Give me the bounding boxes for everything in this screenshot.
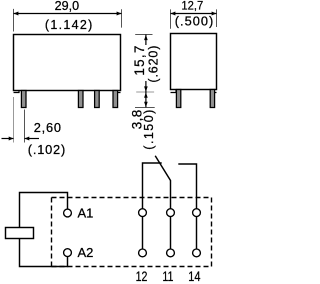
svg-text:29,0: 29,0 [55, 0, 80, 13]
svg-text:12: 12 [136, 269, 148, 284]
svg-text:(.150): (.150) [142, 110, 156, 150]
svg-text:2,60: 2,60 [34, 120, 61, 135]
svg-text:(1.142): (1.142) [45, 18, 93, 32]
svg-text:A2: A2 [78, 245, 94, 260]
svg-text:(.102): (.102) [28, 142, 66, 157]
svg-text:11: 11 [162, 269, 173, 284]
svg-text:12,7: 12,7 [181, 0, 203, 13]
svg-text:(.620): (.620) [146, 46, 160, 83]
svg-text:A1: A1 [78, 205, 94, 220]
svg-text:(.500): (.500) [175, 14, 214, 29]
svg-text:14: 14 [188, 269, 201, 284]
svg-text:15,7: 15,7 [132, 46, 147, 76]
